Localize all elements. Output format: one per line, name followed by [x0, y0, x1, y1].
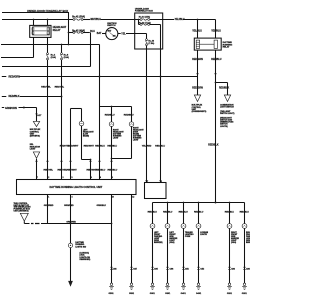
svg-text:C305: C305	[154, 268, 158, 270]
svg-text:HEADLIGHT: HEADLIGHT	[53, 26, 67, 29]
svg-text:RED/WHT: RED/WHT	[84, 145, 95, 147]
svg-text:LIGHT: LIGHT	[133, 140, 139, 142]
svg-text:WHT/BLU: WHT/BLU	[91, 19, 102, 21]
svg-text:RED/BLU: RED/BLU	[240, 212, 250, 214]
svg-text:LIGHTS IND: LIGHTS IND	[75, 246, 86, 248]
svg-text:C417: C417	[133, 267, 137, 270]
svg-text:YEL/BLU: YEL/BLU	[192, 31, 202, 33]
svg-text:YEL/RED: YEL/RED	[142, 145, 152, 147]
svg-text:8: 8	[112, 177, 113, 179]
svg-text:(7.5A): (7.5A)	[148, 42, 154, 45]
svg-text:C204: C204	[246, 267, 250, 270]
svg-text:7: 7	[37, 177, 38, 179]
svg-text:G501: G501	[129, 293, 135, 295]
svg-text:FUSE/RELAY BOX: FUSE/RELAY BOX	[135, 10, 154, 13]
svg-text:(USA): (USA)	[231, 241, 236, 244]
svg-text:G301: G301	[150, 293, 156, 295]
svg-text:(PASSENGER'S): (PASSENGER'S)	[192, 110, 207, 113]
svg-text:CONN: CONN	[185, 236, 191, 238]
svg-text:RED/GRN: RED/GRN	[9, 76, 21, 79]
svg-text:12: 12	[132, 196, 134, 198]
svg-text:DAYTIME RUNNING LIGHTS CONTROL: DAYTIME RUNNING LIGHTS CONTROL UNIT	[50, 186, 103, 189]
svg-text:LIGHT: LIGHT	[113, 137, 119, 139]
svg-text:RED/BLK: RED/BLK	[219, 87, 230, 89]
svg-text:LIGHTS: LIGHTS	[200, 234, 207, 236]
svg-text:RED/BLU: RED/BLU	[155, 145, 165, 147]
svg-text:IG1: IG1	[113, 36, 116, 38]
svg-text:C452: C452	[200, 267, 204, 270]
svg-text:2: 2	[48, 177, 49, 179]
svg-text:RED/BLU: RED/BLU	[107, 145, 117, 147]
svg-text:No.36 (7.5A): No.36 (7.5A)	[139, 21, 151, 24]
svg-text:RED/BLK: RED/BLK	[9, 95, 20, 98]
svg-text:MARKER): MARKER)	[154, 241, 163, 244]
svg-text:7: 7	[147, 181, 148, 183]
svg-text:UNIT (DRIVER'S): UNIT (DRIVER'S)	[14, 211, 29, 213]
svg-text:(15A): (15A)	[64, 56, 70, 59]
svg-text:4: 4	[72, 195, 73, 198]
svg-text:G401: G401	[196, 292, 202, 295]
svg-text:C306: C306	[170, 268, 174, 270]
svg-text:GRN/ORN: GRN/ORN	[5, 107, 17, 110]
svg-text:C203: C203	[231, 268, 235, 270]
svg-text:RED/BLU: RED/BLU	[211, 59, 222, 61]
svg-text:No.44 (15A): No.44 (15A)	[139, 15, 151, 18]
svg-text:(DRIVER'S): (DRIVER'S)	[30, 136, 40, 138]
svg-text:RED/YEL: RED/YEL	[41, 86, 51, 88]
svg-text:3: 3	[63, 177, 64, 179]
svg-text:RED/WHT: RED/WHT	[67, 170, 78, 172]
svg-text:YEL/BLU: YEL/BLU	[211, 31, 221, 33]
svg-text:RED/BLU: RED/BLU	[148, 212, 158, 214]
svg-text:No.42 (40A): No.42 (40A)	[72, 29, 85, 32]
svg-text:BEAM): BEAM)	[83, 134, 89, 137]
svg-text:G201: G201	[227, 293, 233, 295]
svg-text:RED/WHT: RED/WHT	[68, 145, 79, 147]
svg-text:RED/BLU: RED/BLU	[163, 212, 173, 214]
svg-text:(USA): (USA)	[169, 241, 174, 244]
svg-text:RED/BLU: RED/BLU	[105, 115, 115, 117]
svg-text:LIGHT: LIGHT	[30, 149, 37, 151]
svg-text:RED/BLU: RED/BLU	[95, 145, 105, 147]
svg-text:RED/BLU: RED/BLU	[108, 170, 118, 172]
svg-text:No.41 (50A): No.41 (50A)	[72, 16, 85, 19]
svg-text:RED/BLU: RED/BLU	[124, 115, 134, 117]
svg-text:GRN/RED: GRN/RED	[66, 222, 76, 224]
svg-text:G401: G401	[181, 292, 187, 295]
svg-text:RED/BLU: RED/BLU	[225, 212, 235, 214]
svg-text:RED/GRN: RED/GRN	[192, 59, 203, 61]
svg-text:RED/YEL: RED/YEL	[44, 170, 54, 172]
svg-text:A17: A17	[37, 114, 42, 117]
svg-text:RED/BLU: RED/BLU	[194, 212, 204, 214]
svg-text:G301: G301	[165, 293, 171, 295]
svg-text:1: 1	[48, 196, 49, 198]
svg-text:RED/GRN: RED/GRN	[192, 87, 203, 89]
svg-text:G501: G501	[108, 293, 114, 295]
svg-text:RED/YEL: RED/YEL	[55, 86, 65, 88]
svg-text:BAT: BAT	[108, 29, 113, 32]
svg-text:RELAY: RELAY	[53, 29, 61, 32]
svg-text:C416: C416	[113, 267, 117, 270]
svg-text:SWITCH: SWITCH	[107, 25, 116, 27]
svg-text:RED/BLU: RED/BLU	[96, 170, 106, 172]
svg-text:9: 9	[91, 177, 92, 179]
svg-text:RED/BLU: RED/BLU	[179, 212, 189, 214]
svg-text:BAT: BAT	[97, 32, 102, 35]
svg-text:SWITCH LIGHT): SWITCH LIGHT)	[220, 113, 235, 115]
svg-text:RED/BLK: RED/BLK	[208, 145, 219, 147]
svg-text:GRN/BLK: GRN/BLK	[97, 205, 107, 207]
svg-text:6: 6	[100, 177, 101, 179]
svg-text:GRN/RED: GRN/RED	[44, 205, 54, 207]
svg-text:YEL: YEL	[121, 34, 126, 36]
svg-text:RELAY: RELAY	[223, 46, 230, 49]
svg-text:(15A): (15A)	[51, 56, 57, 59]
svg-text:MARKER): MARKER)	[246, 241, 250, 244]
svg-text:GRN/RED: GRN/RED	[64, 205, 74, 207]
svg-text:LIGHT SWITCH: LIGHT SWITCH	[220, 107, 234, 109]
svg-text:1: 1	[161, 181, 162, 183]
svg-text:LIGHTS): LIGHTS)	[220, 126, 228, 128]
svg-text:G201: G201	[242, 293, 248, 295]
svg-text:C451: C451	[185, 267, 189, 270]
svg-text:UNDER-HOOD FUSE/RELAY BOX: UNDER-HOOD FUSE/RELAY BOX	[27, 9, 68, 13]
svg-text:YEL/BLU: YEL/BLU	[175, 19, 185, 21]
svg-text:5: 5	[72, 177, 73, 179]
svg-text:REMINDER): REMINDER)	[80, 259, 91, 261]
svg-text:BLU: BLU	[90, 31, 95, 33]
svg-text:10: 10	[112, 196, 114, 198]
